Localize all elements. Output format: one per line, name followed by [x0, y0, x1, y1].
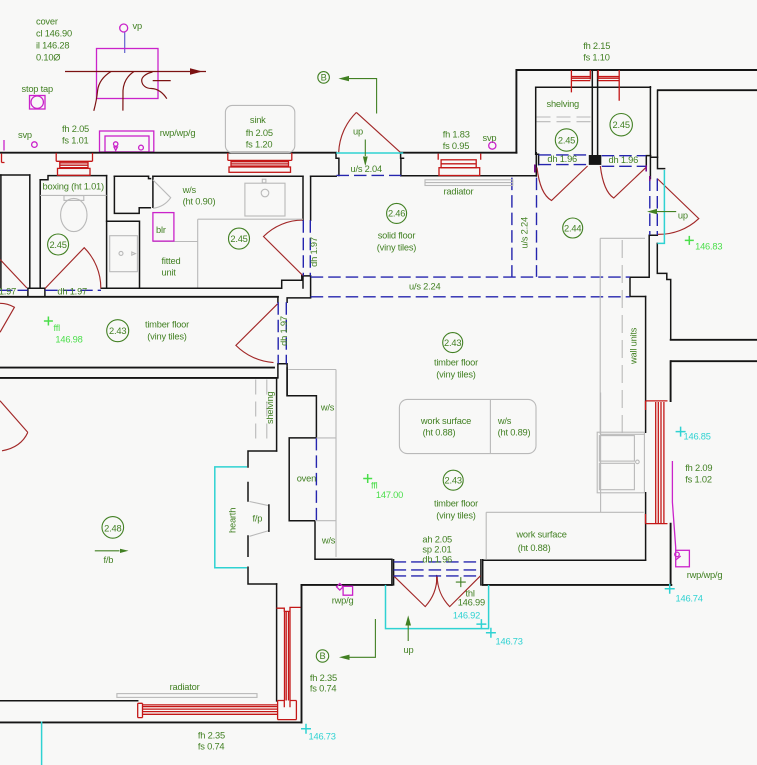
svg-text:2.45: 2.45: [613, 120, 630, 130]
svg-text:f/b: f/b: [104, 555, 114, 565]
svg-text:146.83: 146.83: [695, 242, 722, 252]
svg-text:B: B: [321, 72, 327, 82]
closet left wall: [535, 87, 538, 176]
svg-text:up: up: [353, 127, 363, 137]
svg-text:146.99: 146.99: [458, 598, 485, 608]
room circle 2.43 kitchen north: [443, 333, 463, 353]
door closet 1: [537, 166, 588, 201]
kitchen SE counter: [486, 393, 644, 560]
f/b arrow: [95, 549, 129, 553]
svg-text:fs 1.10: fs 1.10: [583, 52, 610, 62]
svg-text:fh 2.15: fh 2.15: [583, 41, 610, 51]
svg-text:work surface: work surface: [420, 416, 471, 426]
porch outline: [386, 585, 489, 629]
living room top wall: [0, 377, 277, 379]
w/s bottom wall steps: [101, 276, 302, 288]
closet bottom jambs: [536, 154, 658, 166]
svg-text:u/s 2.04: u/s 2.04: [351, 164, 383, 174]
svg-text:146.98: 146.98: [55, 335, 82, 345]
hearth: [215, 467, 247, 568]
svg-text:timber floor: timber floor: [434, 358, 478, 368]
cyan cross 146.74: [665, 584, 675, 594]
left wing outer bottom wall: [0, 721, 302, 723]
french door jambs: [392, 560, 483, 585]
svg-text:up: up: [678, 211, 688, 221]
door closet 2: [600, 166, 646, 198]
window E top right: [571, 70, 619, 101]
door corridor east end: [236, 304, 278, 363]
dh 1.96 closet 1: [539, 155, 589, 165]
dh 1.97 bathroom door head: [45, 289, 101, 291]
svg-text:timber floor: timber floor: [434, 499, 478, 509]
svg-text:dh 1.96: dh 1.96: [547, 154, 577, 164]
magenta tick left edge: [3, 140, 5, 151]
svg-text:fs 1.01: fs 1.01: [62, 135, 89, 145]
room circle 2.44 upper hall: [563, 218, 583, 238]
w/s basin: [245, 183, 285, 216]
svg-text:rwp/wp/g: rwp/wp/g: [160, 128, 196, 138]
kitchen west wall zigzag: [287, 368, 316, 558]
top inner wall face segments: [0, 175, 536, 180]
svg-text:w/s: w/s: [321, 536, 336, 546]
svg-text:cover: cover: [36, 17, 58, 27]
svg-text:rwp/g: rwp/g: [332, 596, 354, 606]
svg-text:2.44: 2.44: [564, 223, 581, 233]
closets top wall: [536, 86, 651, 88]
kitchen west counter: [288, 370, 336, 558]
svg-text:work surface: work surface: [515, 530, 566, 540]
window F left wing east: [276, 607, 300, 719]
corridor lower face: [0, 296, 278, 298]
blr label and box: [153, 213, 174, 242]
svg-text:(viny tiles): (viny tiles): [147, 332, 187, 342]
kitchen south outer wall: [302, 584, 672, 586]
kitchen east inner wall: [645, 297, 647, 560]
svg-text:fh 2.05: fh 2.05: [246, 128, 273, 138]
svg-text:146.92: 146.92: [453, 611, 480, 621]
svg-text:fh 2.05: fh 2.05: [62, 124, 89, 134]
cyan cross 146.73 bottom: [301, 724, 311, 734]
kitchen south inner wall: [315, 559, 646, 560]
svg-text:146.73: 146.73: [309, 732, 336, 742]
door bathroom: [45, 248, 101, 289]
dh 1.97 left room door head: [0, 289, 28, 291]
dh 1.97 corridor east door head: [278, 302, 286, 363]
green cross ffl 146.98: [44, 317, 53, 326]
svg-text:2.43: 2.43: [109, 326, 126, 336]
dh stairs door: [650, 179, 658, 236]
svg-text:w/s: w/s: [497, 416, 512, 426]
cyan cross 146.85: [676, 427, 686, 437]
door corridor left edge: [0, 303, 14, 332]
entrance door left jamb: [336, 153, 339, 176]
room circle 2.46 hall: [387, 203, 407, 223]
stair door line: [657, 170, 664, 243]
svg-text:wall units: wall units: [629, 327, 639, 365]
living east wall upper: [276, 378, 278, 451]
svg-text:oven: oven: [297, 474, 316, 484]
room circle 2.43 kitchen south: [443, 470, 463, 490]
window stub far left: [2, 154, 5, 163]
svg-text:dh 1.97: dh 1.97: [57, 287, 87, 297]
svg-text:u/s 2.24: u/s 2.24: [520, 217, 530, 249]
svg-text:fs 0.74: fs 0.74: [310, 684, 337, 694]
window C hall: [438, 154, 481, 176]
svg-text:svp: svp: [18, 130, 32, 140]
svg-text:B: B: [319, 651, 325, 661]
left small room walls: [1, 175, 30, 288]
shelving closet dashes: [537, 117, 592, 122]
porch up arrow: [405, 615, 411, 641]
u/s 2.24 horizontal upper: [311, 276, 630, 278]
svg-text:up: up: [404, 645, 414, 655]
radiator living: [117, 694, 257, 698]
svg-text:il 146.28: il 146.28: [36, 41, 69, 51]
wall units dashed rect: [600, 238, 645, 434]
fitted unit boundary: [153, 219, 303, 287]
svg-text:2.43: 2.43: [445, 476, 462, 486]
svg-text:boxing (ht 1.01): boxing (ht 1.01): [43, 182, 105, 192]
door stairs: [657, 179, 699, 235]
rwp/g west label: [337, 584, 353, 596]
svg-text:fs 1.20: fs 1.20: [246, 140, 273, 150]
section marker B bottom: [316, 619, 375, 662]
svg-text:(viny tiles): (viny tiles): [436, 370, 476, 380]
nook cabinet: [110, 236, 138, 272]
svg-text:(viny tiles): (viny tiles): [377, 243, 417, 253]
room circle 2.45 w/s: [229, 228, 250, 249]
left wing outer east wall: [301, 585, 303, 722]
dh 1.97 w/s east door head: [303, 220, 310, 275]
svg-text:fh 2.09: fh 2.09: [685, 463, 712, 473]
svg-text:radiator: radiator: [170, 682, 200, 692]
sink label rounded box: [225, 105, 294, 152]
svg-text:w/s: w/s: [182, 185, 197, 195]
door w/s room: [264, 220, 303, 276]
rwp east symbol: [672, 461, 675, 550]
radiator hall: [425, 180, 513, 186]
living east wall lower: [276, 584, 278, 701]
shelving living dashes: [256, 380, 267, 442]
svg-text:vp: vp: [133, 21, 142, 31]
svg-text:rwp/wp/g: rwp/wp/g: [687, 570, 723, 580]
vp vent pipe circle: [120, 24, 128, 32]
svg-text:stop tap: stop tap: [22, 84, 54, 94]
sink unit east: [597, 432, 644, 493]
green cross thl: [456, 577, 466, 587]
svg-text:(ht 0.88): (ht 0.88): [518, 543, 551, 553]
room circle 2.45 closet1: [555, 129, 577, 151]
entrance door right jamb: [401, 153, 404, 176]
svg-text:cl 146.90: cl 146.90: [36, 29, 72, 39]
u/s 2.24 horizontal lower: [311, 296, 630, 298]
svg-text:0.10Ø: 0.10Ø: [36, 53, 60, 63]
door entrance: [339, 112, 401, 152]
top-right exterior wall: [516, 70, 757, 153]
corridor-end wall bits: [278, 297, 311, 396]
drain flow arrow: [65, 71, 206, 73]
svg-text:solid floor: solid floor: [378, 231, 416, 241]
entrance up arrow: [363, 140, 368, 167]
window B sink: [228, 153, 292, 172]
blue pipe line: [124, 33, 126, 54]
stair lower wall steps: [657, 243, 670, 339]
svg-text:svp: svp: [483, 133, 497, 143]
svg-text:ffl: ffl: [371, 481, 378, 491]
rwp fixture magenta: [100, 131, 154, 152]
room circle 2.45 bathroom: [48, 234, 69, 255]
svg-text:146.85: 146.85: [684, 432, 711, 442]
svg-text:2.46: 2.46: [388, 209, 405, 219]
french door right leaf: [437, 576, 480, 607]
green cross ffl 147.00: [363, 474, 372, 483]
svg-text:dh 1.97: dh 1.97: [309, 237, 319, 267]
dh 1.96 closet 2: [602, 156, 646, 167]
toilet bowl: [61, 198, 87, 231]
living bottom inner wall: [0, 700, 138, 702]
toilet cistern: [64, 196, 84, 201]
svg-text:radiator: radiator: [444, 187, 474, 197]
east exterior wall: [670, 361, 672, 585]
svg-text:fitted: fitted: [162, 256, 181, 266]
svg-text:dh 1.97: dh 1.97: [279, 316, 289, 346]
w/s east wall pair: [302, 176, 311, 297]
svg-text:dh 1.96: dh 1.96: [609, 155, 639, 165]
window A west: [56, 153, 92, 175]
top exterior wall outer face: [0, 152, 516, 154]
french door head dashes: [394, 562, 481, 576]
svg-text:ffl: ffl: [54, 323, 61, 333]
staircase side walls: [650, 87, 664, 179]
svg-text:146.73: 146.73: [496, 637, 523, 647]
window corner box: [278, 701, 297, 720]
svg-text:f/p: f/p: [253, 514, 263, 524]
svg-text:fh 1.83: fh 1.83: [443, 130, 470, 140]
room circle 2.45 closet2: [610, 114, 632, 136]
cyan line bottom left: [41, 722, 43, 765]
window D east kitchen: [646, 401, 668, 524]
svg-text:fh 2.35: fh 2.35: [198, 731, 225, 741]
east wing walls: [658, 90, 757, 361]
cyan cross 146.73 porch: [486, 628, 496, 638]
svg-text:shelving: shelving: [547, 99, 580, 109]
island work surface: [399, 399, 536, 453]
door left small room: [0, 259, 27, 288]
closet divider wall: [592, 70, 597, 155]
room circle 2.43 corridor: [107, 320, 129, 342]
vestibule walls: [114, 176, 152, 213]
chimney breast: [248, 451, 277, 584]
svg-text:dh 1.96: dh 1.96: [422, 555, 452, 565]
svg-text:fs 0.74: fs 0.74: [198, 742, 225, 752]
green cross 146.83: [685, 236, 694, 245]
svg-text:ah 2.05: ah 2.05: [422, 534, 452, 544]
door living room west: [0, 401, 28, 451]
svg-text:2.45: 2.45: [49, 240, 66, 250]
french door left leaf: [394, 576, 437, 607]
svg-text:sink: sink: [250, 115, 266, 125]
svg-text:fs 1.02: fs 1.02: [685, 474, 712, 484]
svg-text:sp 2.01: sp 2.01: [422, 545, 451, 555]
corridor door stubs bottom left: [28, 288, 45, 297]
grey door vestibule to w/s: [153, 180, 171, 208]
svg-text:2.48: 2.48: [104, 523, 121, 533]
toilet shelf line: [40, 194, 106, 196]
interceptor magenta box: [97, 49, 159, 99]
purple jamb ticks: [534, 165, 536, 173]
svg-text:2.45: 2.45: [558, 135, 575, 145]
window G left wing south: [138, 703, 278, 717]
svg-text:shelving: shelving: [265, 391, 275, 424]
svg-text:u/s 2.24: u/s 2.24: [409, 282, 441, 292]
cyan cross 146.92: [476, 619, 486, 629]
fireplace trapezoid: [250, 502, 269, 537]
svg-text:2.43: 2.43: [444, 338, 461, 348]
section marker B top: [318, 72, 377, 114]
svg-text:hearth: hearth: [227, 508, 237, 533]
corridor bottom wall: [0, 367, 274, 369]
kitchen northeast wall bits: [630, 235, 657, 296]
oven tall unit dashed: [315, 438, 317, 521]
room circle 2.48 living: [102, 517, 124, 539]
bathroom walls: [40, 176, 106, 289]
entrance threshold: [336, 152, 403, 154]
wall below vestibule: [107, 221, 140, 288]
svg-text:timber floor: timber floor: [145, 320, 189, 330]
svg-text:146.74: 146.74: [676, 594, 703, 604]
svg-text:2.45: 2.45: [230, 234, 247, 244]
stairs up arrow: [647, 209, 676, 214]
drain curves: [94, 72, 111, 111]
svg-text:(ht 0.89): (ht 0.89): [498, 428, 531, 438]
svg-text:(ht 0.90): (ht 0.90): [183, 196, 216, 206]
svg-text:unit: unit: [162, 267, 177, 277]
svg-text:fh 2.35: fh 2.35: [310, 673, 337, 683]
svg-text:blr: blr: [156, 225, 166, 235]
svg-text:(viny tiles): (viny tiles): [436, 511, 476, 521]
u/s 2.04 entrance dashes: [337, 174, 402, 176]
svg-text:(ht 0.88): (ht 0.88): [423, 428, 456, 438]
svg-text:fs 0.95: fs 0.95: [443, 141, 470, 151]
svg-text:dh 1.97: dh 1.97: [0, 287, 16, 297]
french door center tick: [436, 575, 438, 585]
svg-text:w/s: w/s: [320, 402, 335, 412]
svg-text:147.00: 147.00: [376, 490, 403, 500]
u/s 2.24 vertical pair: [512, 178, 537, 277]
